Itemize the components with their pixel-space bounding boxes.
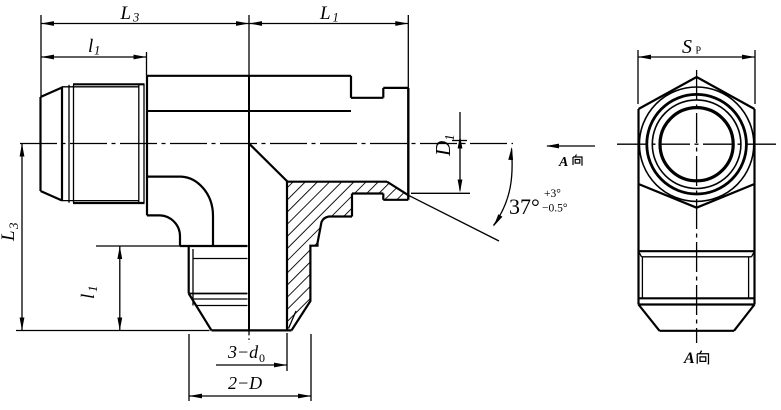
svg-text:A: A [683,350,695,367]
svg-text:37°: 37° [509,194,540,219]
svg-text:D: D [431,141,455,157]
svg-text:1: 1 [443,134,458,141]
svg-text:P: P [696,46,702,57]
svg-text:1: 1 [94,44,100,58]
svg-text:2−D: 2−D [228,373,262,393]
svg-text:−0.5°: −0.5° [542,203,568,215]
svg-text:l: l [78,294,99,299]
svg-text:3: 3 [132,11,139,25]
svg-text:L: L [0,230,19,242]
svg-text:3: 3 [6,222,21,230]
svg-text:1: 1 [333,11,339,25]
svg-text:1: 1 [85,286,100,293]
svg-text:+3°: +3° [544,188,561,200]
svg-text:L: L [319,3,331,24]
svg-text:L: L [120,3,132,24]
svg-text:0: 0 [259,351,265,365]
svg-text:3−d: 3−d [227,342,259,362]
svg-text:A: A [558,155,568,170]
svg-text:l: l [88,36,93,57]
svg-text:S: S [682,36,692,58]
